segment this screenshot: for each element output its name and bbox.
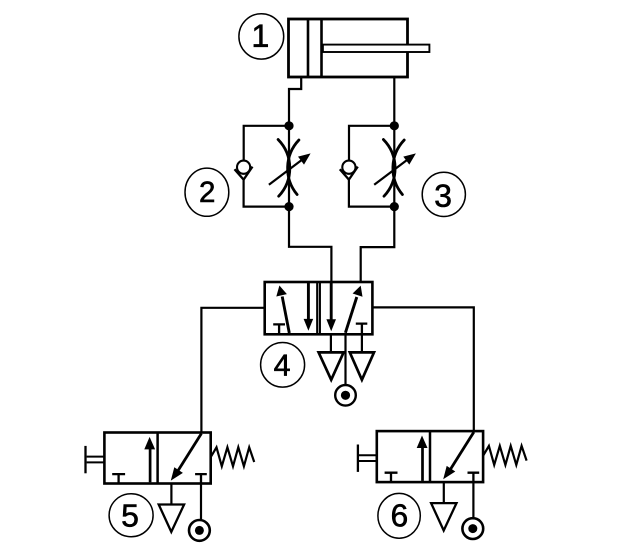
position divider line 2 [319, 282, 321, 334]
wire valve 4 pilot right to valve 6 [372, 307, 473, 432]
label 5 [109, 494, 153, 537]
push button plunger plate [84, 446, 86, 473]
left box down arrowhead [304, 319, 314, 331]
label 2 [185, 168, 229, 216]
valve body [265, 282, 373, 334]
junction dot bottom [284, 202, 293, 211]
main line [288, 126, 290, 207]
valve body [104, 433, 210, 484]
valve 6 (3/2-way push button valve) [358, 431, 527, 539]
flow control valve 3 (one-way flow control) [340, 121, 416, 211]
push button rod lines [87, 457, 105, 463]
exhaust stub [170, 484, 172, 505]
junction dot top [390, 121, 399, 130]
exhaust triangle [159, 505, 184, 532]
cylinder 1 (double-acting cylinder) [289, 19, 430, 77]
junction dot bottom [390, 202, 399, 211]
supply stub [200, 484, 202, 521]
piston rod [323, 45, 430, 52]
left box diagonal arrow shaft [282, 297, 289, 334]
label 1 [239, 14, 284, 59]
right box diagonal arrowhead [353, 286, 363, 297]
left box up arrow shaft [421, 446, 424, 481]
left box blocked port T [385, 473, 398, 482]
left box up arrow shaft [149, 448, 152, 483]
right box diagonal arrowhead [443, 466, 455, 479]
supply stub [472, 482, 474, 517]
adjustment arrowhead [403, 153, 416, 164]
right box down arrowhead [326, 319, 336, 331]
position divider [156, 433, 159, 484]
wire valve 2 to valve 4 port [289, 207, 331, 282]
valve 5 (3/2-way push button valve) [86, 433, 255, 541]
left box diagonal arrowhead [276, 286, 287, 297]
wire valve 3 to valve 4 port [361, 207, 395, 282]
right box diagonal arrowhead [171, 467, 183, 480]
check valve branch wire [349, 126, 394, 161]
pressure source under valve 4 [335, 385, 356, 406]
directional valve 4 (5/2-way) [265, 282, 373, 334]
left box down arrow shaft [307, 283, 310, 320]
check valve branch wire [244, 126, 289, 161]
check valve branch lower wire [349, 179, 394, 207]
label 3 [422, 172, 465, 216]
left box blocked port T [112, 474, 125, 483]
right box blocked port T [468, 473, 480, 482]
wire cylinder right port to valve 3 [393, 77, 395, 126]
valve body [377, 431, 483, 482]
right box down arrow shaft [330, 283, 333, 321]
throttle arc left [383, 140, 395, 197]
right box diagonal arrow shaft [178, 434, 202, 472]
valve 4 exhaust stub right [361, 334, 363, 352]
pressure source [189, 520, 210, 541]
check valve ball [342, 161, 355, 174]
pressure source [462, 518, 483, 539]
throttle arc left [278, 140, 290, 197]
adjustment arrow shaft [374, 160, 407, 185]
cylinder barrel [289, 19, 408, 77]
exhaust stub [443, 482, 445, 503]
right box blocked port T [356, 324, 368, 334]
check valve branch lower wire [244, 179, 289, 207]
flow control valve 2 (one-way flow control) [234, 121, 310, 211]
wire valve 4 pilot left to valve 5 [201, 308, 264, 434]
throttle arc right [393, 140, 404, 195]
check valve seat [234, 167, 252, 180]
exhaust triangle left under valve 4 [319, 352, 344, 379]
position divider line 1 [316, 282, 318, 334]
wire cylinder left port to valve 2 [289, 77, 301, 126]
left box up arrowhead [417, 436, 428, 449]
return spring [211, 447, 254, 466]
piston line 2 [320, 19, 323, 77]
piston line 1 [307, 19, 310, 77]
throttle arc right [288, 140, 299, 195]
exhaust triangle right under valve 4 [350, 352, 374, 379]
right box diagonal arrow shaft [345, 297, 356, 333]
main line [393, 126, 395, 207]
push button plunger plate [357, 445, 359, 472]
valve 4 supply stub center [344, 334, 346, 385]
valve 4 exhaust stub left [330, 334, 332, 352]
adjustment arrow shaft [269, 160, 302, 185]
label 6 [378, 493, 420, 538]
push button rod lines [359, 455, 377, 461]
adjustment arrowhead [298, 153, 311, 164]
right box diagonal arrow shaft [450, 432, 474, 470]
exhaust triangle [431, 503, 456, 530]
check valve ball [237, 161, 250, 174]
label 4 [261, 343, 305, 388]
left box up arrowhead [144, 437, 155, 450]
check valve seat [340, 167, 358, 180]
left box blocked port T [273, 324, 285, 333]
return spring [483, 446, 526, 465]
junction dot top [284, 121, 293, 130]
right box blocked port T [195, 474, 207, 483]
position divider [429, 431, 432, 482]
